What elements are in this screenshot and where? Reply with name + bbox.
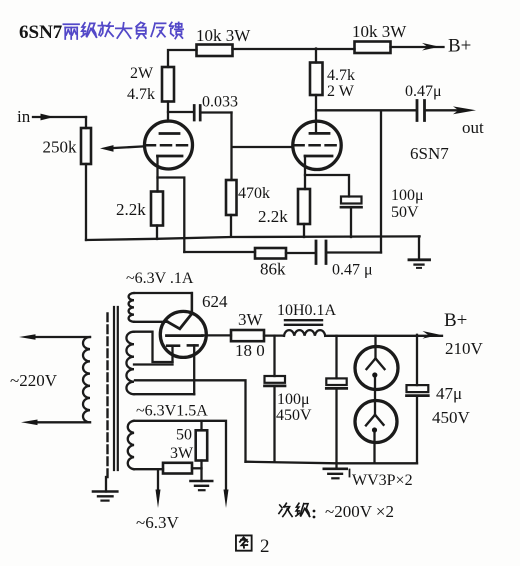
- svg-text:~6.3V: ~6.3V: [136, 513, 179, 532]
- wire cathode V1 feedback branch: [158, 178, 185, 253]
- svg-text:4.7k: 4.7k: [327, 67, 355, 84]
- tube V3 rectifier 624: [160, 293, 206, 394]
- svg-text:2: 2: [260, 536, 270, 557]
- tube V5 regulator WY3P lower: [355, 401, 397, 464]
- ground core: [93, 477, 117, 501]
- svg-text:~200V ×2: ~200V ×2: [325, 502, 394, 521]
- svg-text:100μ: 100μ: [391, 187, 424, 204]
- svg-text:~220V: ~220V: [10, 371, 58, 390]
- wire ground rail: [86, 236, 420, 240]
- svg-text:4.7k: 4.7k: [127, 86, 155, 103]
- capacitor C2 100u 50V: [341, 187, 424, 237]
- wire cathode V2 branch: [305, 175, 349, 197]
- wire B+ rail top: [168, 47, 444, 67]
- svg-text:B+: B+: [448, 36, 471, 57]
- svg-text:250k: 250k: [43, 138, 78, 157]
- resistor R10 50 3W: [170, 427, 207, 463]
- capacitor C1 0.033: [168, 94, 238, 121]
- tube V4 regulator WY3P upper: [355, 336, 398, 401]
- svg-text:~6.3V1.5A: ~6.3V1.5A: [136, 403, 208, 420]
- ground top section: [409, 236, 430, 268]
- svg-text:10k 3W: 10k 3W: [196, 26, 251, 45]
- capacitor C7 47u 450V: [407, 335, 471, 464]
- resistor R8 86k: [255, 248, 286, 279]
- svg-text:0.47μ: 0.47μ: [405, 83, 442, 100]
- svg-text:450V: 450V: [432, 408, 471, 427]
- svg-text:450V: 450V: [276, 407, 312, 424]
- svg-text:2 W: 2 W: [327, 83, 355, 100]
- svg-text:624: 624: [202, 292, 228, 311]
- svg-text:10H0.1A: 10H0.1A: [277, 302, 337, 319]
- wire output node: [316, 110, 416, 252]
- input terminal in: [17, 107, 86, 126]
- B+ terminal top: [422, 36, 471, 57]
- tube V1 triode: [145, 121, 193, 192]
- B+ terminal PSU: [423, 310, 484, 358]
- svg-text:210V: 210V: [445, 339, 484, 358]
- svg-text:2W: 2W: [130, 65, 154, 82]
- title: 6SN7 two-stage amplifier with negative feedback: [19, 22, 63, 43]
- svg-text:~6.3V .1A: ~6.3V .1A: [126, 270, 194, 287]
- svg-text:50: 50: [176, 427, 192, 444]
- choke L1 10H 0.1A: [277, 302, 337, 336]
- heater terminal arrows ~6.3V: [136, 490, 229, 533]
- potentiometer VR1 250k: [43, 117, 145, 240]
- resistor R3 4.7k 2W: [127, 65, 174, 103]
- wire plate V1 lead: [167, 102, 169, 122]
- wire cathode to filter: [202, 334, 231, 336]
- svg-text:2.2k: 2.2k: [258, 207, 288, 226]
- wire B+ line PSU: [325, 335, 442, 337]
- svg-text:2.2k: 2.2k: [116, 200, 146, 219]
- svg-text:B+: B+: [444, 310, 467, 331]
- ground heater: [191, 461, 213, 491]
- svg-text:in: in: [17, 107, 31, 126]
- capacitor C5 100u 450V: [265, 336, 313, 462]
- caption fig 2: [236, 535, 270, 557]
- resistor R7 2.2k: [258, 189, 310, 237]
- svg-text:10k 3W: 10k 3W: [352, 22, 407, 41]
- wire feedback line: [184, 251, 255, 253]
- secondary winding W3 heater 6.3V 1.5A: [128, 421, 226, 490]
- resistor R5 2.2k: [116, 192, 163, 240]
- resistor R11 humdinger: [163, 463, 202, 474]
- resistor R6 4.7k 2W: [310, 63, 355, 101]
- svg-text:out: out: [462, 118, 484, 137]
- svg-text:18 0: 18 0: [235, 341, 265, 360]
- wire coupling node to grid V2 and R4: [232, 113, 294, 181]
- svg-text:100μ: 100μ: [277, 391, 310, 408]
- secondary winding W1 HV: [129, 293, 192, 322]
- resistor R1 10k 3W: [196, 26, 251, 56]
- svg-text:47μ: 47μ: [436, 384, 462, 403]
- svg-text:6SN7: 6SN7: [410, 144, 449, 163]
- svg-text:86k: 86k: [260, 260, 286, 279]
- secondary winding W2 rectifier filament: [126, 332, 245, 462]
- svg-text:3W: 3W: [170, 445, 194, 462]
- svg-text:470k: 470k: [238, 185, 270, 202]
- svg-text:50V: 50V: [391, 204, 419, 221]
- svg-text:3W: 3W: [238, 310, 264, 329]
- capacitor C3 0.47u out: [405, 83, 462, 121]
- ground filter: [324, 463, 347, 478]
- label secondary ~200V x2: [279, 502, 394, 521]
- capacitor C6 100u 450V second: [326, 336, 346, 464]
- resistor R4 470k: [226, 180, 270, 237]
- transformer core: [108, 307, 118, 477]
- resistor R9 180 3W: [231, 310, 284, 360]
- out terminal: [453, 106, 484, 137]
- tube V2 triode: [293, 95, 341, 189]
- svg-text:0.47 μ: 0.47 μ: [332, 262, 373, 279]
- capacitor C4 0.47u feedback: [286, 241, 381, 279]
- svg-text:0.033: 0.033: [202, 94, 238, 111]
- transformer T1 primary winding: [19, 334, 90, 425]
- wire PSU bottom rail: [246, 462, 418, 464]
- resistor R2 10k 3W: [352, 22, 407, 53]
- svg-text:6SN7: 6SN7: [19, 22, 63, 43]
- svg-text:WV3P×2: WV3P×2: [352, 472, 413, 489]
